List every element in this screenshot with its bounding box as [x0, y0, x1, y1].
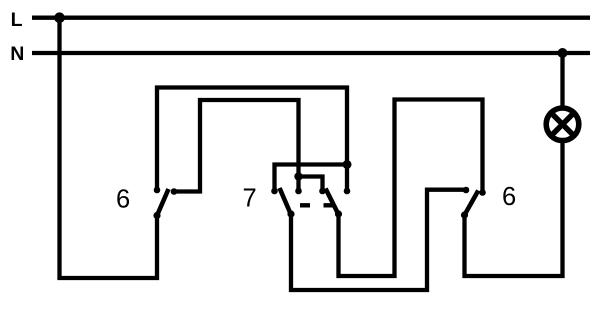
svg-text:6: 6 — [116, 185, 130, 213]
switch S2 terminal T2 — [295, 188, 302, 195]
switch S2 pole P2 — [335, 210, 342, 217]
switch S2 pole P1 — [287, 210, 294, 217]
switch S2 terminal T3 — [319, 188, 326, 195]
switch S2 lever 2 — [326, 189, 339, 214]
node L — [11, 9, 23, 31]
wire: P2 to S3 contact B — [339, 100, 483, 277]
lamp E1 cross stroke 1 — [551, 113, 573, 135]
switch S2 lever 1 — [280, 188, 291, 214]
svg-text:6: 6 — [502, 183, 516, 211]
wire: lamp to N junction — [560, 53, 564, 109]
switch S1 contact B — [171, 188, 178, 195]
switch S3 pole — [461, 211, 468, 218]
wire: S1 contact B inner strap to T2 — [174, 100, 299, 192]
switch S2 terminal T1 — [271, 188, 278, 195]
wire: L feed down to switch S1 pole — [60, 18, 158, 278]
lamp E1 circle — [546, 108, 579, 141]
wire: L rail — [32, 16, 590, 20]
label 6 (right switch S3) — [502, 183, 516, 211]
switch S3 contact A — [463, 187, 470, 194]
junction: inner strap branch — [294, 172, 302, 180]
wire: P1 to S3 contact A — [291, 190, 466, 290]
wire: T1 link to outer strap — [275, 165, 348, 192]
label 6 (left switch S1) — [116, 185, 130, 213]
label 7 (intermediate switch S2) — [243, 185, 257, 213]
switch S1 contact A — [154, 187, 161, 194]
wire: S1 contact A outer strap to T4 — [157, 88, 347, 192]
svg-text:N: N — [10, 43, 24, 65]
svg-text:7: 7 — [243, 185, 257, 213]
junction: link to outer strap — [343, 160, 352, 169]
junction on L rail — [54, 12, 65, 23]
switch S2 terminal T4 — [344, 188, 351, 195]
mechanical link (dashed) — [300, 203, 333, 207]
node N — [10, 43, 24, 65]
lamp E1 cross stroke 2 — [551, 113, 573, 135]
switch S3 contact B — [479, 189, 486, 196]
switch S1 pole — [153, 212, 160, 219]
wire: branch to T3 — [299, 177, 323, 192]
wire: S3 pole to lamp — [465, 141, 563, 277]
wire: N rail — [32, 51, 590, 55]
switch S3 lever — [465, 191, 479, 216]
junction on N rail — [558, 48, 568, 58]
switch S1 lever — [157, 189, 169, 216]
svg-text:L: L — [11, 9, 23, 31]
